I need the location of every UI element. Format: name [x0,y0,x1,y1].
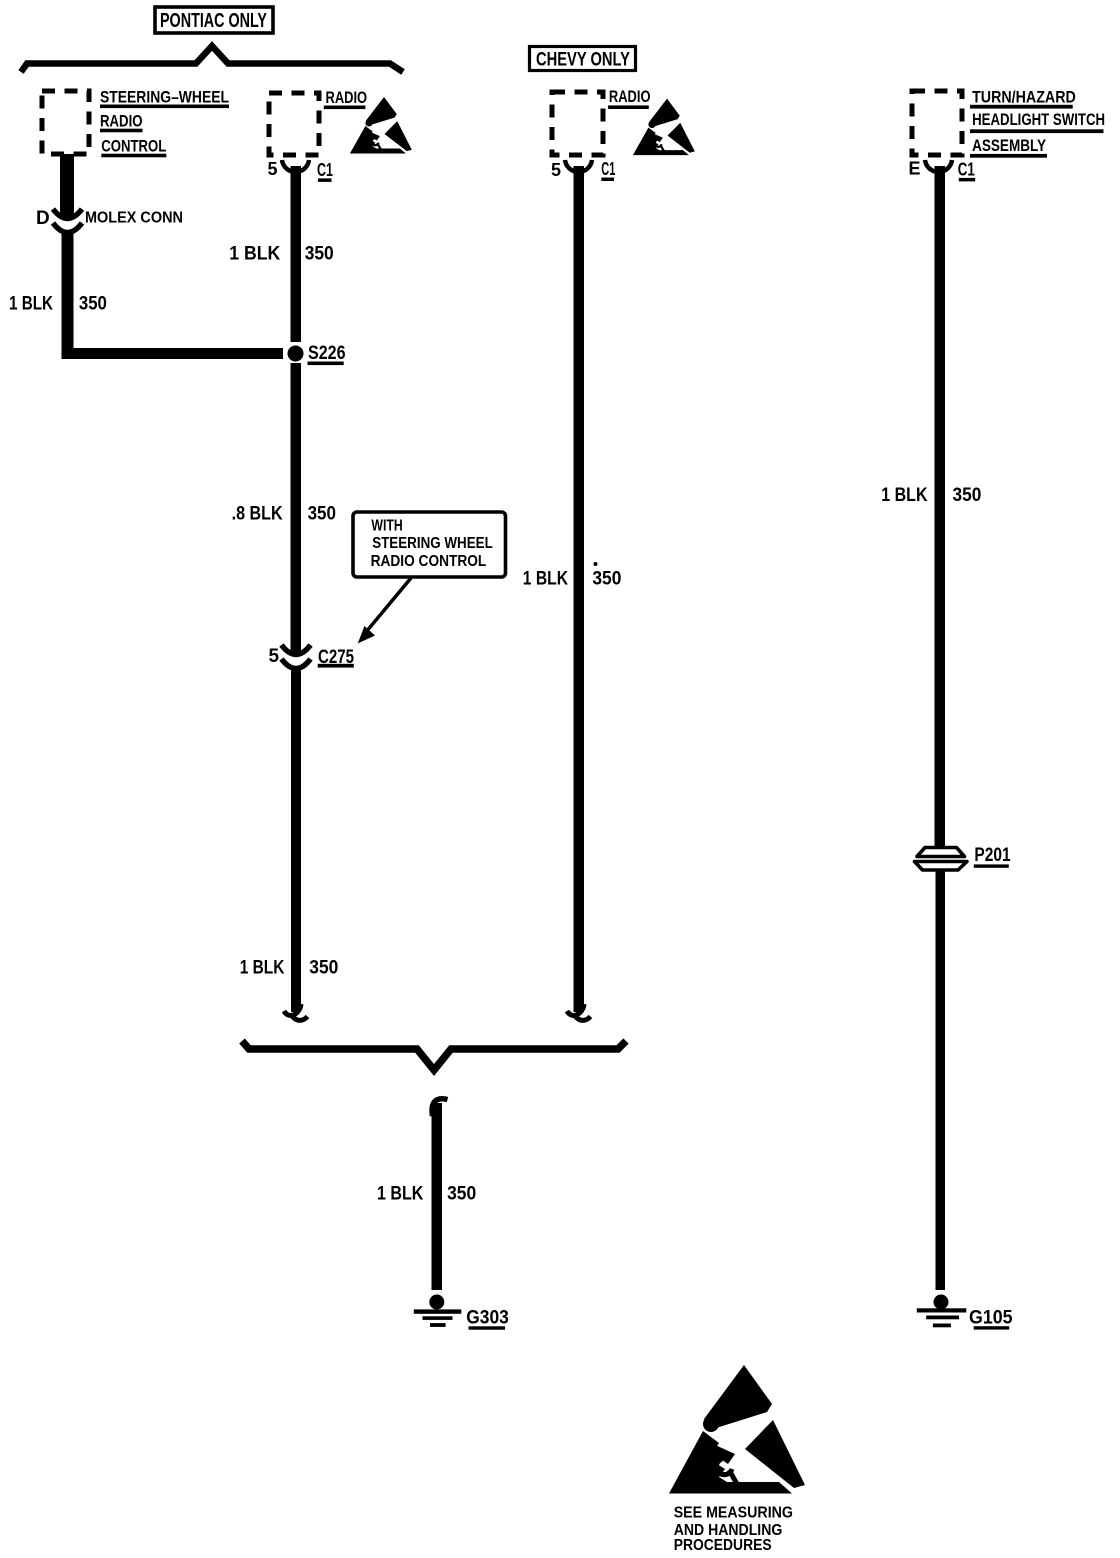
wire end hook (pontiac) [284,1004,301,1015]
svg-text:1 BLK: 1 BLK [523,569,568,590]
connector D (molex) [53,209,82,219]
svg-text:1 BLK: 1 BLK [377,1184,424,1205]
connector: turn/hazard headlight switch assembly (dashed box) [912,91,962,155]
svg-text:CONTROL: CONTROL [101,136,166,155]
ESD warning symbol (large) [669,1365,805,1494]
svg-text:STEERING–WHEEL: STEERING–WHEEL [100,88,229,107]
wire: down to G303 [432,1103,443,1290]
svg-text:MOLEX CONN: MOLEX CONN [85,210,183,227]
svg-text:CHEVY ONLY: CHEVY ONLY [536,50,630,71]
svg-text:1 BLK: 1 BLK [240,957,285,978]
note box WITH STEERING WHEEL RADIO CONTROL [353,512,506,577]
ground G303 [429,1295,444,1310]
connector: radio chevy (dashed box) [552,92,603,155]
svg-text:5: 5 [269,646,280,667]
svg-text:1 BLK: 1 BLK [229,243,280,264]
svg-text:D: D [36,208,50,229]
wire: P201 down to G105 [936,869,946,1291]
svg-text:HEADLIGHT SWITCH: HEADLIGHT SWITCH [972,110,1105,129]
svg-text:E: E [909,158,921,178]
svg-text:PONTIAC ONLY: PONTIAC ONLY [160,10,267,32]
svg-text:350: 350 [447,1184,476,1205]
svg-text:350: 350 [308,504,336,525]
splice S226 [288,346,304,362]
svg-text:1 BLK: 1 BLK [881,485,927,506]
PONTIAC ONLY label box [155,7,273,33]
svg-text:ASSEMBLY: ASSEMBLY [972,136,1047,155]
svg-text:1 BLK: 1 BLK [9,294,53,315]
ground G105 [934,1295,949,1310]
CHEVY ONLY label box [530,47,636,71]
svg-text:RADIO CONTROL: RADIO CONTROL [371,553,487,570]
svg-text:RADIO: RADIO [326,88,368,107]
brace joining pontiac and chevy wires [242,1041,626,1070]
ESD symbol (chevy radio) [633,99,695,156]
wire start hook (ground wire) [432,1099,447,1116]
grommet P201 [917,848,965,857]
wire: S226 down to C275 [291,363,302,652]
svg-text:5: 5 [551,160,561,180]
svg-text:5: 5 [268,159,278,179]
svg-text:S226: S226 [308,343,346,364]
wire: turn/hazard down to P201 [935,166,946,848]
svg-text:PROCEDURES: PROCEDURES [674,1537,772,1554]
svg-text:350: 350 [953,485,982,506]
wire: C275 down to harness end [291,666,301,1012]
wire: pontiac radio down to S226 [291,166,302,342]
connector cup C1 (pontiac radio) [282,160,309,172]
svg-text:STEERING WHEEL: STEERING WHEEL [372,535,493,552]
brace over Pontiac branch [21,46,403,72]
svg-text:350: 350 [592,569,621,590]
wire: horizontal run to S226 [62,348,284,359]
svg-text:G105: G105 [969,1307,1013,1328]
wire: steering wheel control down to molex [60,154,74,218]
svg-text:P201: P201 [974,845,1011,866]
connector cup C1 (chevy radio) [565,160,592,172]
svg-text:C1: C1 [958,160,975,180]
connector cup C1 (turn/hazard) [925,160,952,172]
connector: steering-wheel radio control (dashed box) [42,91,89,154]
connector C275 (inline) [282,645,311,655]
svg-text:C1: C1 [317,160,333,180]
ESD symbol (pontiac radio) [350,97,412,154]
svg-text:RADIO: RADIO [609,87,651,106]
svg-text:SEE MEASURING: SEE MEASURING [674,1504,793,1521]
svg-text:WITH: WITH [371,518,402,535]
wire end hook (chevy) [567,1004,584,1015]
svg-text:G303: G303 [466,1308,509,1329]
svg-text:.8 BLK: .8 BLK [232,504,283,525]
connector: radio pontiac (dashed box) [269,93,319,155]
wire: molex down to corner [62,233,74,353]
svg-text:350: 350 [305,243,334,264]
svg-text:RADIO: RADIO [100,111,143,130]
svg-text:TURN/HAZARD: TURN/HAZARD [972,88,1076,107]
wire: chevy radio down to harness end [574,166,585,1012]
svg-text:C1: C1 [601,159,615,179]
arrow from note box to C275 [366,578,411,632]
svg-text:350: 350 [309,957,338,978]
svg-text:350: 350 [79,294,107,315]
